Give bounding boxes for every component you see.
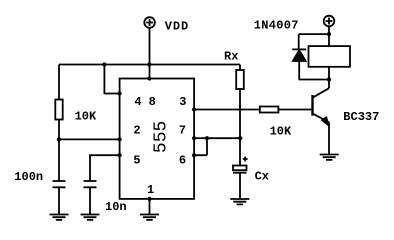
node VDD rail junction <box>147 62 151 66</box>
capacitor 100n <box>53 181 66 187</box>
ground (100n) <box>50 215 69 220</box>
svg-text:Rx: Rx <box>224 50 238 64</box>
node pin6 box junction <box>192 153 196 157</box>
wire VDD to pin8 <box>149 28 151 79</box>
wire left rail upper <box>58 65 60 100</box>
svg-text:8: 8 <box>149 95 156 109</box>
wire pin1 to ground <box>149 199 151 215</box>
wire pin7 <box>194 137 240 139</box>
wire emitter to ground <box>328 122 330 154</box>
svg-text:5: 5 <box>133 154 140 168</box>
wire resistor to base <box>278 109 312 111</box>
svg-text:7: 7 <box>179 123 186 137</box>
capacitor 10n <box>84 181 97 187</box>
resistor Rx <box>236 70 244 89</box>
wire Cx to ground <box>239 173 241 199</box>
svg-text:555: 555 <box>151 121 171 153</box>
ground (Cx) <box>230 199 249 204</box>
svg-text:6: 6 <box>179 154 186 168</box>
node pin6-pin7 junction <box>205 136 209 140</box>
node pin2 box junction <box>118 137 122 141</box>
node pin1 box junction <box>147 197 151 201</box>
resistor 10K (left pull-up) <box>55 100 62 120</box>
node relay top junction <box>327 32 331 36</box>
power VDD symbol (right) <box>324 16 335 27</box>
diode 1N4007 <box>292 48 306 50</box>
svg-text:4: 4 <box>134 95 141 109</box>
node pin7 box junction <box>192 136 196 140</box>
wire rail to Rx <box>239 65 241 71</box>
wire diode bottom branch <box>299 61 329 80</box>
wire top rail <box>59 64 240 66</box>
ground (emitter) <box>320 155 339 160</box>
wire pin4 branch <box>104 65 119 94</box>
op-amp U1 555 IC box <box>120 79 195 199</box>
svg-text:10n: 10n <box>105 200 127 214</box>
svg-text:100n: 100n <box>14 170 43 184</box>
wire Rx to Cx <box>239 89 241 166</box>
transistor Q1 BC337 <box>311 95 313 116</box>
node pin5 box junction <box>118 153 122 157</box>
capacitor Cx (polarized) <box>233 166 247 171</box>
wire diode top branch <box>299 34 329 49</box>
node pin3 box junction <box>192 107 196 111</box>
svg-text:1N4007: 1N4007 <box>254 19 299 33</box>
svg-text:3: 3 <box>179 95 186 109</box>
node relay bottom junction <box>327 77 331 81</box>
svg-text:10K: 10K <box>270 124 292 138</box>
power VDD symbol (left) <box>144 17 155 28</box>
wire pin2 <box>59 138 120 140</box>
node pin8 box junction <box>147 76 151 80</box>
wire pin3 to resistor <box>194 109 260 111</box>
wire pin5 <box>90 155 120 181</box>
svg-text:1: 1 <box>147 183 154 197</box>
ground (pin1) <box>140 215 159 220</box>
svg-text:10K: 10K <box>75 110 97 124</box>
node pin7 Cx junction <box>238 136 242 140</box>
node pin4 rail junction <box>102 62 106 66</box>
node pin2 left junction <box>57 137 61 141</box>
wire VDD2 to relay <box>328 26 330 46</box>
wire left rail lower <box>58 120 60 182</box>
resistor 10K (base) <box>260 107 279 113</box>
node pin4 box junction <box>118 91 122 95</box>
svg-text:Cx: Cx <box>255 170 269 184</box>
svg-text:VDD: VDD <box>165 19 189 33</box>
wire 10n to ground <box>89 187 91 214</box>
wire 100n to ground <box>58 187 60 214</box>
svg-text:2: 2 <box>133 123 140 137</box>
wire pin6 <box>194 138 207 155</box>
svg-text:BC337: BC337 <box>343 110 379 124</box>
wire relay to collector <box>328 67 330 88</box>
relay K1 coil box <box>309 46 351 67</box>
ground (10n) <box>81 215 100 220</box>
